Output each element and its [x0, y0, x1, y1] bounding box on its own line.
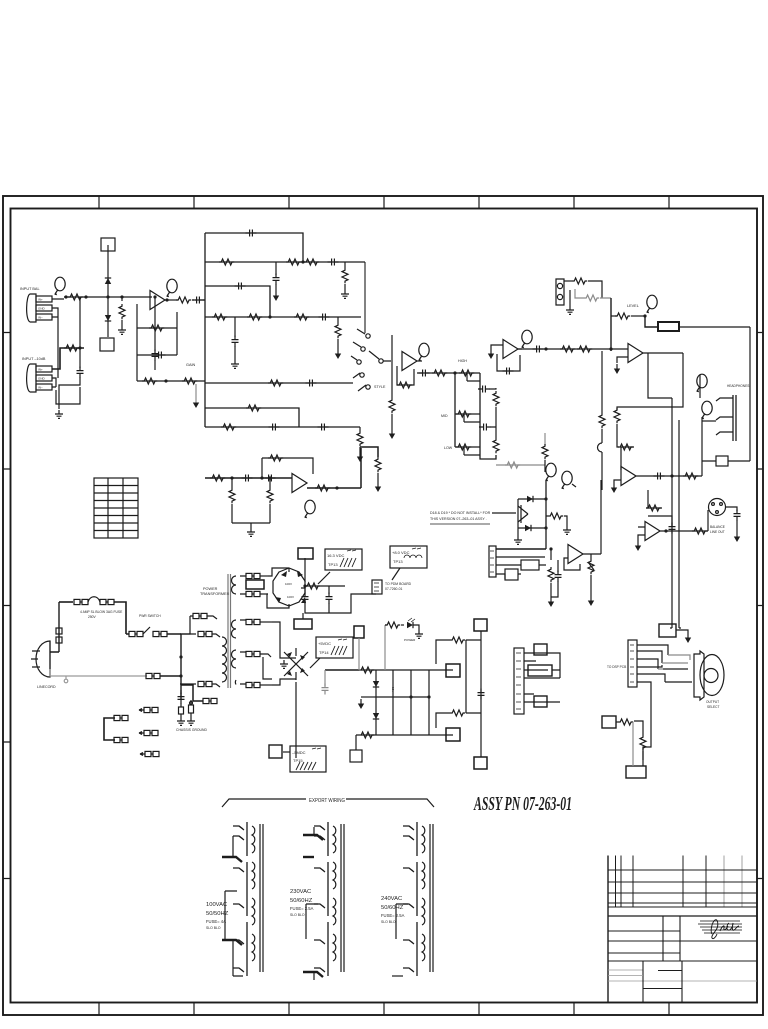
capacitor — [318, 424, 329, 431]
level row resistor — [611, 315, 617, 317]
small rect by jack — [716, 456, 728, 466]
row6 wire — [205, 408, 299, 427]
wire: input to gain amp — [52, 297, 152, 299]
svg-text:TRANSFORMER: TRANSFORMER — [200, 592, 230, 596]
resistor — [375, 457, 381, 472]
svg-text:07-7260-01: 07-7260-01 — [385, 587, 402, 591]
diode D up — [105, 278, 111, 284]
ground — [177, 717, 185, 725]
pot P1 input — [54, 277, 65, 295]
U8 out — [583, 553, 601, 555]
pot P7 — [561, 471, 572, 489]
junction — [301, 260, 304, 263]
U5 output — [643, 352, 683, 354]
svg-text:HIGH: HIGH — [458, 359, 467, 363]
junction — [544, 347, 547, 350]
feedback cap — [648, 516, 672, 526]
resistor — [397, 382, 412, 388]
connector pair — [100, 599, 114, 604]
input resistor to gnd — [391, 335, 393, 361]
ground — [734, 532, 740, 542]
svg-text:16.3 VDC: 16.3 VDC — [327, 553, 344, 558]
junction — [260, 476, 263, 479]
svg-text:LOW: LOW — [444, 446, 453, 450]
connector pair to primary top — [193, 613, 207, 618]
resistor — [247, 314, 262, 320]
XLR connector — [708, 499, 726, 535]
resistor — [542, 444, 548, 459]
box with gnd — [659, 624, 676, 637]
junction — [230, 476, 233, 479]
right bus resistors — [495, 388, 497, 389]
ground — [358, 699, 364, 709]
connector pairs upper secondary — [246, 573, 260, 578]
ground — [614, 364, 620, 374]
resistor — [315, 485, 330, 491]
svg-text:TP15: TP15 — [293, 758, 303, 763]
tone left bus — [454, 373, 456, 447]
lower title grid — [608, 960, 757, 962]
ground stub on feedback — [195, 380, 197, 382]
filter cap 2 — [328, 586, 330, 594]
diode — [527, 496, 533, 502]
-50VDC TP15 test point box — [269, 745, 326, 772]
junction — [153, 295, 156, 298]
resistor — [615, 313, 630, 319]
ground at mid rail left — [361, 696, 376, 698]
tap jumper wires — [233, 836, 243, 976]
svg-text:STYLE: STYLE — [374, 385, 386, 389]
svg-text:IN–: IN– — [38, 386, 43, 390]
resistor — [385, 622, 400, 628]
transformer primary winding — [222, 637, 227, 682]
svg-text:4 AMP SL BLOW 3AG FUSE: 4 AMP SL BLOW 3AG FUSE — [80, 610, 123, 614]
row4 sub: resistor+arrow gnd — [337, 317, 339, 323]
resistor right — [548, 513, 563, 519]
wires to rotary — [637, 645, 692, 682]
junction — [84, 295, 87, 298]
ground — [375, 482, 381, 492]
row7 wire — [205, 426, 360, 428]
capacitor — [328, 259, 339, 266]
resistor input series — [68, 294, 83, 300]
junction — [179, 655, 182, 658]
op-amp U6 — [621, 467, 636, 486]
mid cap branch — [479, 389, 481, 427]
frame: inner border — [11, 209, 758, 1003]
junction — [643, 314, 646, 317]
resistor — [286, 259, 301, 265]
title block outline — [607, 856, 609, 1003]
resistor — [505, 462, 520, 468]
connector pair — [153, 631, 167, 636]
svg-text:250V: 250V — [88, 615, 97, 619]
svg-text:IN+: IN+ — [38, 298, 43, 302]
row4 sub: cap + tall gnd — [234, 317, 236, 337]
input row — [205, 477, 292, 479]
resistor — [683, 473, 698, 479]
op-amp U7 — [645, 522, 660, 541]
resistor above pot — [544, 433, 546, 445]
svg-text:POWER: POWER — [404, 638, 416, 642]
svg-text:EXPORT WIRING: EXPORT WIRING — [309, 798, 345, 804]
chassis ground caps — [180, 690, 182, 694]
resistor — [614, 408, 620, 423]
boxes — [534, 644, 547, 655]
bold vertical from row7 out — [360, 448, 362, 488]
diode — [525, 525, 531, 531]
small ground at secondary mid — [280, 660, 288, 668]
svg-text:THIS VERSION 07–263–01 ASSY .: THIS VERSION 07–263–01 ASSY . — [430, 517, 487, 521]
capacitor — [503, 368, 514, 375]
wire BR2 output down — [295, 682, 297, 758]
resistor U1A out — [176, 297, 191, 303]
feedback box U4 — [497, 354, 520, 371]
wire down from level node — [610, 298, 612, 351]
right vertical — [600, 480, 602, 554]
title block mid band — [608, 915, 757, 917]
pot P6 level — [646, 295, 657, 313]
resistor — [493, 438, 499, 453]
svg-text:240VAC: 240VAC — [381, 896, 402, 902]
row2 wire — [205, 261, 365, 263]
MID row — [455, 413, 480, 415]
rect box left of BR1 — [246, 580, 264, 589]
revision table verticals — [616, 856, 707, 908]
ground — [231, 360, 239, 368]
svg-text:SLO BLO: SLO BLO — [381, 920, 396, 924]
headphone jack J3 — [702, 384, 749, 441]
capacitor — [232, 336, 239, 347]
resistor — [219, 259, 234, 265]
svg-text:MID: MID — [441, 414, 448, 418]
capacitor — [273, 274, 280, 285]
ground — [548, 597, 554, 607]
pad square top — [101, 238, 115, 251]
svg-text:SLO BLO: SLO BLO — [290, 913, 305, 917]
svg-text:SLO BLO: SLO BLO — [206, 926, 221, 930]
resistor 2 — [584, 295, 599, 301]
resistor left of top rail — [359, 667, 374, 673]
inline fuse holder — [56, 628, 62, 634]
svg-text:TO DSP PCB: TO DSP PCB — [607, 665, 626, 669]
diode D down — [105, 315, 111, 321]
connector pair — [144, 707, 158, 712]
junction — [106, 295, 109, 298]
connector pair primary mid — [198, 631, 212, 636]
svg-text:100V: 100V — [285, 582, 292, 586]
resistor from jack — [564, 280, 572, 282]
LED power — [407, 622, 413, 628]
ground — [685, 633, 691, 643]
resistor — [459, 370, 474, 376]
spare connector bracket — [104, 718, 115, 740]
svg-text:TP13: TP13 — [393, 559, 403, 564]
wires from CN5 — [496, 548, 546, 550]
left bus — [204, 233, 206, 427]
resistor — [182, 378, 197, 384]
connector pair — [246, 682, 260, 687]
connector pair — [114, 737, 128, 742]
resistor — [149, 325, 164, 331]
resistor — [389, 398, 395, 413]
pad square bottom — [100, 338, 114, 351]
U4 + input gnd — [491, 345, 503, 349]
junction — [179, 674, 182, 677]
resistor — [357, 431, 363, 446]
LOW row — [455, 446, 480, 448]
cap U1A out — [193, 297, 204, 304]
connector pair — [74, 599, 88, 604]
connector pairs lower secondary — [246, 619, 260, 624]
wire: plug hot lead up to fuse — [50, 602, 59, 652]
feedback box U1A — [137, 304, 177, 381]
wires into BR1 — [267, 568, 289, 608]
feedback loop — [262, 458, 313, 478]
wire from style bus — [545, 480, 547, 549]
resistor — [294, 314, 309, 320]
right connectors of filter — [446, 664, 460, 677]
op-amp U5 — [628, 344, 643, 363]
connector pair — [145, 751, 159, 756]
capacitor — [419, 370, 430, 377]
input connector J1 — [27, 294, 52, 322]
resistor into U6 — [616, 409, 618, 411]
resistor — [599, 413, 605, 428]
svg-text:+8.0 VDC: +8.0 VDC — [392, 550, 410, 555]
resistor — [268, 380, 283, 386]
resistor — [560, 346, 575, 352]
svg-text:GAIN: GAIN — [186, 363, 196, 367]
resistor -10dB series — [64, 345, 79, 351]
TO PDM BOARD connector — [329, 580, 412, 613]
row2 right vertical to switch — [364, 262, 366, 333]
junction — [664, 529, 667, 532]
junction — [164, 379, 167, 382]
wire secondary to BR2 — [272, 622, 296, 658]
pot P10 — [545, 463, 556, 481]
resistor — [548, 567, 554, 582]
capacitor — [77, 367, 84, 378]
svg-text:GND: GND — [38, 307, 46, 311]
spare arrow connectors — [139, 709, 144, 712]
wire level out — [645, 316, 658, 327]
svg-text:LINE OUT: LINE OUT — [710, 530, 725, 534]
capacitor — [242, 475, 253, 482]
resistor — [646, 505, 661, 511]
svg-text:FUSE= 2.5A: FUSE= 2.5A — [381, 913, 405, 918]
pot P4 — [418, 343, 429, 361]
svg-text:–5MDC: –5MDC — [292, 750, 306, 755]
connector square below — [350, 750, 362, 762]
resistor — [572, 278, 587, 284]
svg-text:PWR SWITCH: PWR SWITCH — [139, 614, 161, 618]
resistor — [450, 710, 465, 716]
svg-text:GND: GND — [38, 377, 46, 381]
row7 right drop — [359, 427, 361, 431]
resistor — [618, 719, 633, 725]
AC line cord plug — [31, 641, 56, 689]
wire: -10dB input row — [52, 348, 64, 369]
vertical resistor + cap to gnd — [550, 549, 552, 560]
right vertical wires — [466, 640, 481, 713]
ground — [273, 291, 279, 301]
rotary switch output select — [694, 651, 704, 700]
filter cap 1 — [304, 586, 306, 594]
junction — [165, 298, 168, 301]
svg-text:INPUT –10dB: INPUT –10dB — [22, 357, 46, 361]
ground — [514, 536, 522, 544]
svg-text:230VAC: 230VAC — [290, 889, 311, 895]
resistor — [456, 444, 471, 450]
svg-text:10v: 10v — [391, 687, 395, 692]
svg-text:100VAC: 100VAC — [206, 902, 227, 908]
left column diodes — [375, 670, 377, 735]
svg-text:IN–: IN– — [38, 316, 43, 320]
resistor — [246, 405, 261, 411]
pot P11 — [590, 554, 592, 559]
wire up to jack — [701, 417, 703, 476]
connector pair lower — [203, 698, 217, 703]
pot P9 hp — [701, 401, 712, 419]
op-amp U1A gain — [150, 291, 165, 310]
resistor — [304, 259, 319, 265]
BR1 + output wire — [301, 586, 305, 588]
op-amp U4 — [503, 340, 518, 359]
ground — [335, 349, 341, 359]
bold jumper arrows — [222, 857, 242, 862]
capacitor — [152, 350, 159, 361]
resistor — [618, 444, 633, 450]
caps columns — [392, 670, 394, 735]
bridge rectifier BR2 diamond — [284, 648, 308, 680]
junction — [78, 346, 81, 349]
svg-text:LEVEL: LEVEL — [627, 304, 639, 308]
capacitor — [555, 571, 562, 582]
bottom rail — [361, 734, 453, 736]
resistor — [210, 475, 225, 481]
ground — [187, 717, 195, 725]
svg-text:HEADPHONES: HEADPHONES — [727, 384, 749, 388]
junction — [427, 695, 430, 698]
op-amp U3 style buffer — [402, 352, 417, 371]
wire: plug neutral to bus — [50, 669, 147, 676]
U4 output row — [518, 349, 561, 351]
svg-text:LINECORD: LINECORD — [37, 685, 56, 689]
ground — [635, 541, 641, 551]
export transformer 240VAC — [381, 822, 433, 976]
transformer core — [228, 574, 231, 688]
resistor — [342, 268, 348, 283]
wire from connector to headphone bus — [679, 327, 750, 461]
footswitch jack — [556, 279, 564, 305]
junction — [303, 584, 306, 587]
capacitor — [306, 380, 317, 387]
wires from CN6 — [524, 653, 560, 702]
ground — [55, 410, 63, 418]
boxes — [521, 560, 539, 570]
U6 output row — [636, 475, 702, 477]
ground — [566, 306, 574, 314]
export transformer 100VAC — [206, 822, 263, 976]
capacitor — [669, 523, 676, 534]
connector pair — [246, 651, 260, 656]
frame: bottom margin zone ticks — [99, 1003, 669, 1016]
svg-text:100V: 100V — [287, 595, 294, 599]
pot P8 hp — [696, 374, 707, 392]
pot P5 — [521, 330, 532, 348]
resistor — [456, 411, 471, 417]
resistor left of bottom rail — [359, 732, 374, 738]
frame: outer border — [3, 196, 763, 1015]
node vertical x108 — [107, 245, 109, 337]
resistor — [588, 559, 594, 574]
input connector J2 — [27, 364, 52, 392]
row5 wire — [205, 382, 353, 384]
resistor — [493, 391, 499, 406]
resistor — [229, 488, 235, 503]
op-amp U8 — [568, 545, 583, 564]
connector pair — [144, 730, 158, 735]
ground — [588, 596, 594, 606]
bold output connector — [658, 322, 679, 331]
U7 output — [660, 530, 708, 532]
signature logo — [698, 920, 742, 939]
ground — [247, 528, 255, 536]
svg-text:50/50HZ: 50/50HZ — [206, 911, 229, 917]
svg-text:TP13: TP13 — [328, 562, 338, 567]
ground — [118, 326, 126, 334]
small gnd by plug — [65, 676, 67, 679]
capacitor — [654, 473, 665, 480]
row4 wire — [205, 316, 361, 318]
capacitor — [265, 475, 276, 482]
transformer upper secondary — [232, 576, 236, 594]
svg-text:IN+: IN+ — [38, 368, 43, 372]
ground — [415, 630, 423, 638]
wire: join to main line — [79, 297, 81, 348]
capacitor — [235, 283, 246, 290]
divider resistors — [231, 478, 233, 488]
mid rail — [376, 696, 430, 698]
resistor — [335, 323, 341, 338]
pot P3 below output — [304, 500, 315, 518]
wire: connector2 lower rows — [52, 378, 80, 404]
op-amp U2 — [292, 474, 307, 493]
resistor — [212, 314, 227, 320]
wire to TP13 connector — [304, 558, 306, 582]
export transformer 230VAC — [290, 822, 344, 980]
junction — [544, 526, 547, 529]
fuse F1 — [59, 601, 73, 603]
ground — [389, 429, 395, 439]
frame: right margin zone ticks — [757, 333, 763, 879]
mid bus lower — [480, 427, 496, 459]
row3 wire — [205, 286, 270, 317]
main filter block — [322, 618, 488, 769]
svg-text:+5VDC: +5VDC — [318, 641, 331, 646]
ground — [357, 452, 363, 462]
capacitor — [479, 386, 490, 393]
svg-text:POWER: POWER — [203, 587, 218, 591]
frame: left margin zone ticks — [3, 333, 11, 879]
resistor to ground — [121, 297, 123, 301]
connector pair — [129, 631, 143, 636]
svg-text:50/60HZ: 50/60HZ — [381, 905, 404, 911]
resistor — [142, 378, 157, 384]
ground — [563, 526, 571, 534]
svg-text:INPUT BAL: INPUT BAL — [20, 287, 40, 291]
